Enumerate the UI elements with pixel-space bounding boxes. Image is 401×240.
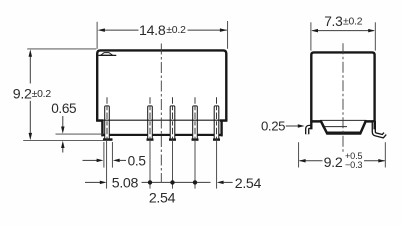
end view centerline xyxy=(342,43,344,152)
body right leg xyxy=(220,121,222,136)
lead right (gull-wing) xyxy=(374,122,385,136)
svg-text:±0.2: ±0.2 xyxy=(32,89,52,100)
pin P4 hidden centerline xyxy=(194,97,196,139)
pin P5 centerline extension xyxy=(216,141,218,189)
pin P1 xyxy=(103,106,113,141)
dimension 7.3±0.2 extension lines xyxy=(310,22,312,50)
body left leg xyxy=(101,121,103,136)
body bottom-right step xyxy=(220,119,228,122)
dimension 0.65 arrows xyxy=(61,116,65,153)
body bottom edge line xyxy=(98,119,227,121)
view centerline xyxy=(160,44,162,183)
pin P3 xyxy=(169,106,176,141)
pin P2 centerline extension xyxy=(149,141,151,189)
body side wall notch extension right xyxy=(374,121,377,129)
body bottom-left step xyxy=(96,119,103,122)
dimension 14.8±0.2 extension line left xyxy=(96,22,98,49)
svg-text:9.2: 9.2 xyxy=(324,155,343,171)
dimension 2.54 right arrow and line xyxy=(217,181,233,185)
dimension 14.8±0.2 extension line right xyxy=(227,21,229,49)
svg-text:9.2: 9.2 xyxy=(13,86,32,102)
svg-text:7.3: 7.3 xyxy=(324,14,343,29)
pin P3 centerline extension xyxy=(172,141,174,189)
pin P2 hidden centerline xyxy=(149,97,151,139)
pin P1 hidden centerline xyxy=(106,97,108,139)
orientation wedge mark xyxy=(98,53,116,56)
svg-text:2.54: 2.54 xyxy=(235,176,262,192)
relay body outline (end view) xyxy=(311,52,374,121)
relay body outline xyxy=(97,50,226,121)
pin P3 hidden centerline xyxy=(172,97,174,139)
body side wall notch extension left xyxy=(310,121,312,129)
pin P4 xyxy=(192,106,199,141)
0.5 foot edge extension lines xyxy=(103,142,105,168)
chain line pin2-pin4 with dots xyxy=(142,180,211,184)
pin P5 hidden centerline xyxy=(216,97,218,139)
lead left (gull-wing) xyxy=(307,127,312,134)
pin P2 xyxy=(147,106,154,141)
dimension 9.2±0.2 extension line top xyxy=(27,48,96,50)
svg-text:−0.3: −0.3 xyxy=(345,160,362,170)
0.65 extension line (foot top) xyxy=(56,133,104,135)
seating thick line between feet xyxy=(103,134,223,136)
svg-text:2.54: 2.54 xyxy=(149,190,176,206)
dimension 7.3±0.2 line and arrows xyxy=(311,29,375,32)
pin P5 xyxy=(213,106,220,141)
dimension 9.2 +0.5 -0.3 extension lines xyxy=(298,142,300,167)
pin P4 centerline extension xyxy=(194,141,196,189)
svg-text:±0.2: ±0.2 xyxy=(343,17,363,28)
svg-text:0.65: 0.65 xyxy=(51,101,76,116)
svg-text:14.8: 14.8 xyxy=(139,23,166,39)
pin P1 centerline extension xyxy=(106,141,108,189)
svg-text:±0.2: ±0.2 xyxy=(166,25,186,36)
seating plane line xyxy=(23,139,103,141)
svg-text:0.5: 0.5 xyxy=(128,154,146,169)
dimension 9.2 +0.5 -0.3 line and arrows xyxy=(299,159,385,163)
dimension 0.5 line and arrows xyxy=(83,159,127,163)
body bottom tub recess xyxy=(320,119,367,121)
dimension 5.08 line and left arrow xyxy=(85,181,107,185)
svg-text:5.08: 5.08 xyxy=(112,176,139,192)
dimension 14.8±0.2 line and arrows xyxy=(98,28,228,32)
svg-text:0.25: 0.25 xyxy=(261,118,285,133)
dimension 9.2±0.2 line and arrows xyxy=(29,49,33,140)
